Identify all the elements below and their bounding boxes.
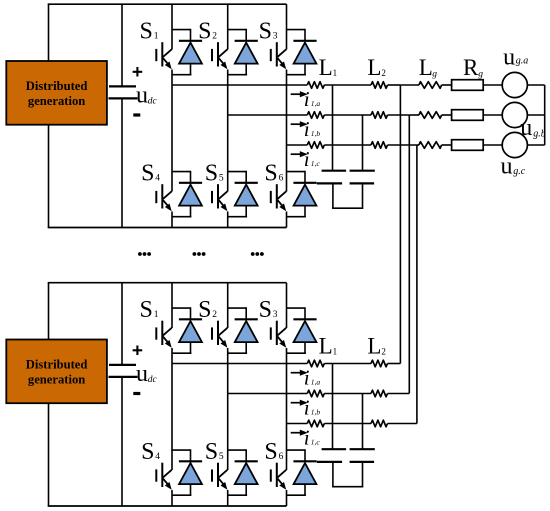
wire: phase c after L2 bbox=[388, 423, 417, 425]
wire: cap lead from phase a bbox=[332, 85, 334, 171]
svg-text:u: u bbox=[520, 115, 532, 141]
svg-text:1,a: 1,a bbox=[311, 99, 321, 108]
svg-text:S: S bbox=[198, 19, 211, 45]
diode D3' (anti-parallel) bbox=[287, 307, 317, 353]
label L1 bbox=[319, 334, 338, 359]
Distributed generation source box bbox=[6, 340, 107, 404]
wire: phase a between L1 and L2 bbox=[324, 84, 371, 86]
resistor Rg phase b bbox=[452, 110, 484, 121]
diode D1 (anti-parallel) bbox=[172, 29, 202, 75]
label + (dc positive) bbox=[133, 346, 143, 356]
svg-text:3: 3 bbox=[273, 31, 278, 41]
capacitor Cf-a bbox=[317, 449, 346, 462]
wire: phase leg 3 middle segment bbox=[286, 348, 288, 470]
wire: phase leg 2 upper segment bbox=[227, 4, 229, 49]
svg-text:1: 1 bbox=[333, 68, 338, 78]
inductor L1 phase a bbox=[307, 360, 324, 367]
label Lg bbox=[419, 55, 438, 80]
label L2 bbox=[367, 334, 386, 359]
wire: phase c output bbox=[287, 144, 308, 146]
svg-text:1: 1 bbox=[333, 346, 338, 356]
svg-text:2: 2 bbox=[212, 31, 217, 41]
inductor L2 phase a bbox=[371, 360, 388, 367]
svg-text:u: u bbox=[136, 83, 148, 109]
wire: Rg to source phase b bbox=[483, 114, 502, 116]
wire: DG top terminal to positive rail bbox=[48, 4, 50, 61]
DC positive rail (top bus) bbox=[48, 282, 287, 284]
inductor Lg phase c bbox=[419, 142, 442, 149]
current label i1,b bbox=[304, 117, 321, 141]
wire: phase leg 3 upper segment bbox=[286, 4, 288, 49]
transistor S1 (IGBT) bbox=[156, 42, 171, 69]
transistor S6' (IGBT) bbox=[271, 463, 286, 490]
label S1 bbox=[140, 297, 159, 323]
wire: PCC tie line phase c (unit2 to unit1) bbox=[416, 145, 418, 424]
inductor L2 phase c bbox=[371, 142, 388, 149]
wire: phase leg 2 lower segment bbox=[227, 490, 229, 506]
label L1 bbox=[319, 55, 338, 80]
svg-text:2: 2 bbox=[212, 310, 217, 320]
inductor Lg phase a bbox=[419, 82, 442, 89]
current label i1,c bbox=[304, 147, 321, 171]
transistor S6 (IGBT) bbox=[271, 184, 286, 211]
wire: Lg to Rg phase b bbox=[442, 114, 452, 116]
svg-text:i: i bbox=[304, 87, 310, 111]
current arrow i1,a bbox=[291, 93, 302, 95]
label: Distributed generation bbox=[26, 358, 88, 387]
inductor L1 phase c bbox=[307, 420, 324, 427]
diode D4' (anti-parallel) bbox=[172, 449, 202, 495]
wire: phase leg 3 middle segment bbox=[286, 70, 288, 192]
wire: source c to neutral bus bbox=[527, 144, 544, 146]
diode D2' (anti-parallel) bbox=[228, 307, 258, 353]
wire: cap lead from phase a bbox=[332, 364, 334, 450]
wire: cap bottom leads and common bus bbox=[332, 183, 363, 208]
wire: phase a after L2 bbox=[388, 84, 401, 86]
svg-text:i: i bbox=[304, 117, 310, 141]
svg-text:L: L bbox=[419, 55, 433, 80]
wire: grid feeder phase b bbox=[409, 114, 419, 116]
inductor L1 phase b bbox=[307, 112, 324, 119]
wire: phase b output bbox=[228, 114, 308, 116]
current label i1,b bbox=[304, 396, 321, 420]
DC positive rail (top bus) bbox=[48, 3, 287, 5]
inductor L2 phase b bbox=[371, 112, 388, 119]
svg-text:5: 5 bbox=[219, 173, 224, 183]
svg-text:L: L bbox=[367, 55, 381, 80]
wire: phase leg 2 upper segment bbox=[227, 283, 229, 328]
wire: phase leg 3 upper segment bbox=[286, 283, 288, 328]
wire: phase leg 2 middle segment bbox=[227, 348, 229, 470]
svg-text:Distributed: Distributed bbox=[26, 358, 88, 372]
wire: grid neutral bus bbox=[544, 85, 546, 145]
label S6 bbox=[264, 439, 283, 465]
wire: dc-link upper bbox=[121, 4, 123, 86]
transistor S2 (IGBT) bbox=[212, 42, 227, 69]
wire: phase leg 1 upper segment bbox=[171, 4, 173, 49]
svg-text:g: g bbox=[432, 70, 437, 80]
wire: phase leg 1 middle segment bbox=[171, 70, 173, 192]
wire: phase b after L2 bbox=[388, 114, 410, 116]
wire: phase leg 3 lower segment bbox=[286, 212, 288, 228]
wire: Lg to Rg phase c bbox=[442, 144, 452, 146]
label S2 bbox=[198, 297, 217, 323]
label S1 bbox=[140, 19, 159, 45]
wire: phase leg 1 middle segment bbox=[171, 348, 173, 470]
svg-text:5: 5 bbox=[219, 452, 224, 462]
svg-text:dc: dc bbox=[148, 97, 158, 107]
svg-text:1,b: 1,b bbox=[311, 129, 321, 138]
wire: dc-link lower bbox=[121, 377, 123, 506]
inductor L2 phase b bbox=[371, 390, 388, 397]
wire: phase a after L2 bbox=[388, 363, 401, 365]
svg-text:i: i bbox=[304, 426, 310, 450]
svg-text:1,c: 1,c bbox=[311, 159, 321, 168]
capacitor Cdc (dc-link) bbox=[109, 365, 138, 377]
wire: DG top terminal to positive rail bbox=[48, 283, 50, 340]
current label i1,a bbox=[304, 366, 321, 390]
svg-text:S: S bbox=[141, 439, 154, 465]
svg-text:g.c: g.c bbox=[513, 166, 526, 177]
diode D5' (anti-parallel) bbox=[228, 449, 258, 495]
svg-text:S: S bbox=[205, 161, 218, 187]
svg-text:6: 6 bbox=[279, 173, 284, 183]
label ug.c bbox=[501, 153, 526, 179]
svg-text:generation: generation bbox=[28, 94, 85, 108]
voltage source ug,a bbox=[502, 72, 527, 97]
wire: DG bottom terminal to negative rail bbox=[48, 125, 50, 228]
label + (dc positive) bbox=[133, 67, 143, 77]
svg-text:g.a: g.a bbox=[516, 55, 529, 66]
svg-text:u: u bbox=[136, 361, 148, 387]
wire: cap lead from phase b bbox=[362, 115, 364, 171]
wire: cap lead from phase b bbox=[362, 394, 364, 450]
transistor S4' (IGBT) bbox=[156, 463, 171, 490]
wire: cap bottom leads and common bus bbox=[332, 462, 363, 487]
wire: grid feeder phase c bbox=[417, 144, 419, 146]
diode D6 (anti-parallel) bbox=[287, 171, 317, 217]
inductor L1 phase b bbox=[307, 390, 324, 397]
transistor S5 (IGBT) bbox=[212, 184, 227, 211]
svg-text:L: L bbox=[367, 334, 381, 359]
svg-text:g: g bbox=[478, 70, 483, 80]
wire: phase a output bbox=[172, 363, 307, 365]
svg-text:generation: generation bbox=[28, 373, 85, 387]
svg-text:1: 1 bbox=[154, 310, 159, 320]
voltage source ug,b bbox=[502, 102, 527, 127]
svg-text:L: L bbox=[319, 55, 333, 80]
diode D6' (anti-parallel) bbox=[287, 449, 317, 495]
wire: phase c after L2 bbox=[388, 144, 417, 146]
wire: source a to neutral bus bbox=[527, 84, 544, 86]
wire: phase c between L1 and L2 bbox=[324, 144, 371, 146]
label S5 bbox=[205, 161, 224, 187]
ellipsis (more units) at x=199.0 bbox=[193, 252, 206, 256]
voltage source ug,c bbox=[502, 132, 527, 157]
diode D2 (anti-parallel) bbox=[228, 29, 258, 75]
wire: phase b output bbox=[228, 393, 308, 395]
label - (dc negative) bbox=[133, 392, 140, 395]
svg-text:S: S bbox=[140, 19, 153, 45]
diode D1' (anti-parallel) bbox=[172, 307, 202, 353]
svg-text:u: u bbox=[503, 44, 515, 70]
wire: phase b between L1 and L2 bbox=[324, 114, 371, 116]
svg-text:S: S bbox=[264, 439, 277, 465]
label - (dc negative) bbox=[133, 113, 140, 116]
svg-text:u: u bbox=[501, 153, 513, 179]
svg-text:2: 2 bbox=[381, 68, 386, 78]
svg-text:1,c: 1,c bbox=[311, 438, 321, 447]
capacitor Cf-b bbox=[350, 449, 375, 462]
wire: phase leg 1 upper segment bbox=[171, 283, 173, 328]
label S3 bbox=[259, 19, 278, 45]
svg-text:S: S bbox=[259, 297, 272, 323]
capacitor Cf-a bbox=[317, 171, 346, 184]
wire: Rg to source phase c bbox=[483, 144, 502, 146]
svg-text:1,b: 1,b bbox=[311, 408, 321, 417]
svg-text:3: 3 bbox=[273, 310, 278, 320]
label S5 bbox=[205, 439, 224, 465]
svg-text:4: 4 bbox=[155, 452, 160, 462]
wire: phase leg 3 lower segment bbox=[286, 490, 288, 506]
current arrow i1,b bbox=[291, 402, 302, 404]
svg-text:i: i bbox=[304, 396, 310, 420]
wire: phase b between L1 and L2 bbox=[324, 393, 371, 395]
svg-text:i: i bbox=[304, 366, 310, 390]
wire: PCC tie line phase a (unit2 to unit1) bbox=[399, 85, 401, 364]
capacitor Cdc (dc-link) bbox=[109, 86, 138, 98]
wire: dc-link upper bbox=[121, 283, 123, 365]
current arrow i1,c bbox=[291, 153, 302, 155]
wire: phase leg 2 lower segment bbox=[227, 212, 229, 228]
transistor S2' (IGBT) bbox=[212, 321, 227, 348]
transistor S4 (IGBT) bbox=[156, 184, 171, 211]
label udc bbox=[136, 361, 157, 387]
wire: phase a output bbox=[172, 84, 307, 86]
resistor Rg phase a bbox=[452, 80, 484, 91]
resistor Rg phase c bbox=[452, 140, 484, 151]
svg-text:S: S bbox=[264, 161, 277, 187]
diode D3 (anti-parallel) bbox=[287, 29, 317, 75]
wire: phase b after L2 bbox=[388, 393, 410, 395]
svg-text:S: S bbox=[141, 161, 154, 187]
svg-text:2: 2 bbox=[381, 346, 386, 356]
transistor S1' (IGBT) bbox=[156, 321, 171, 348]
DC negative rail (bottom bus) bbox=[48, 227, 287, 229]
svg-text:S: S bbox=[140, 297, 153, 323]
diode D5 (anti-parallel) bbox=[228, 171, 258, 217]
label L2 bbox=[367, 55, 386, 80]
svg-text:i: i bbox=[304, 147, 310, 171]
current label i1,a bbox=[304, 87, 321, 111]
inductor L1 phase c bbox=[307, 142, 324, 149]
wire: phase leg 1 lower segment bbox=[171, 212, 173, 228]
ellipsis (more units) at x=257.3 bbox=[251, 252, 264, 256]
svg-text:S: S bbox=[198, 297, 211, 323]
inductor L2 phase c bbox=[371, 420, 388, 427]
transistor S5' (IGBT) bbox=[212, 463, 227, 490]
svg-text:S: S bbox=[259, 19, 272, 45]
svg-text:6: 6 bbox=[279, 452, 284, 462]
wire: phase c output bbox=[287, 423, 308, 425]
svg-text:L: L bbox=[319, 334, 333, 359]
wire: Lg to Rg phase a bbox=[442, 84, 452, 86]
inductor Lg phase b bbox=[419, 112, 442, 119]
Distributed generation source box bbox=[6, 61, 107, 125]
label S2 bbox=[198, 19, 217, 45]
wire: source b to neutral bus bbox=[527, 114, 544, 116]
current arrow i1,c bbox=[291, 432, 302, 434]
label S4 bbox=[141, 439, 160, 465]
svg-text:1,a: 1,a bbox=[311, 378, 321, 387]
inductor L1 phase a bbox=[307, 82, 324, 89]
label ug.a bbox=[503, 44, 528, 70]
svg-text:Distributed: Distributed bbox=[26, 79, 88, 93]
transistor S3 (IGBT) bbox=[271, 42, 286, 69]
svg-text:R: R bbox=[463, 55, 479, 80]
current label i1,c bbox=[304, 426, 321, 450]
label S4 bbox=[141, 161, 160, 187]
ellipsis (more units) at x=144.5 bbox=[138, 252, 151, 256]
svg-text:g.b: g.b bbox=[533, 129, 546, 140]
current arrow i1,a bbox=[291, 372, 302, 374]
transistor S3' (IGBT) bbox=[271, 321, 286, 348]
wire: DG bottom terminal to negative rail bbox=[48, 403, 50, 506]
wire: phase leg 1 lower segment bbox=[171, 490, 173, 506]
label: Distributed generation bbox=[26, 79, 88, 108]
wire: phase leg 2 middle segment bbox=[227, 70, 229, 192]
label Rg bbox=[463, 55, 483, 80]
label udc bbox=[136, 83, 157, 109]
DC negative rail (bottom bus) bbox=[48, 505, 287, 507]
capacitor Cf-b bbox=[350, 171, 375, 184]
wire: dc-link lower bbox=[121, 98, 123, 227]
diode D4 (anti-parallel) bbox=[172, 171, 202, 217]
svg-text:4: 4 bbox=[155, 173, 160, 183]
label ug.b bbox=[520, 115, 546, 141]
inductor L2 phase a bbox=[371, 82, 388, 89]
svg-text:dc: dc bbox=[148, 375, 158, 385]
wire: phase c between L1 and L2 bbox=[324, 423, 371, 425]
svg-text:1: 1 bbox=[154, 31, 159, 41]
label S6 bbox=[264, 161, 283, 187]
current arrow i1,b bbox=[291, 123, 302, 125]
wire: phase a between L1 and L2 bbox=[324, 363, 371, 365]
label S3 bbox=[259, 297, 278, 323]
wire: grid feeder phase a bbox=[400, 84, 419, 86]
svg-text:S: S bbox=[205, 439, 218, 465]
wire: PCC tie line phase b (unit2 to unit1) bbox=[408, 115, 410, 394]
wire: Rg to source phase a bbox=[483, 84, 502, 86]
